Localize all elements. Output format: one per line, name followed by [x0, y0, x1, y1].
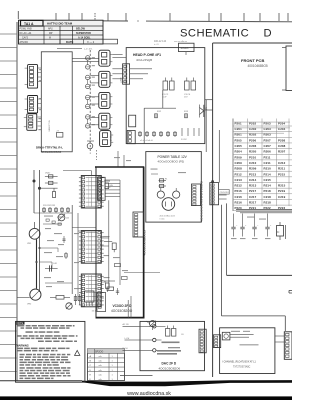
dac terminals [153, 325, 156, 328]
dashed bus line [89, 50, 91, 154]
vertical text in selector box [49, 120, 51, 132]
wire vertical x221 lower [221, 205, 223, 316]
svg-text:R207: R207 [278, 150, 286, 154]
svg-text:C205: C205 [235, 144, 243, 148]
front pcb border vertical [212, 43, 214, 377]
cap C50 [109, 280, 115, 282]
svg-text:R31 R32 R33: R31 R32 R33 [43, 205, 56, 207]
svg-text:M: M [49, 38, 51, 40]
svg-text:x4x: x4x [99, 379, 102, 381]
relay box in head pcb [129, 115, 136, 127]
wires modules to head pcb [112, 54, 122, 56]
svg-text:1N4O: 1N4O [45, 173, 51, 175]
wire phono H [40, 187, 58, 189]
svg-text:tc 41: tc 41 [154, 43, 160, 46]
svg-text:CAYS: CAYS [22, 37, 29, 40]
svg-text:P209: P209 [235, 155, 242, 159]
option table [88, 349, 125, 381]
dash stub above vc300 [96, 150, 98, 160]
pot VR5 above dac [150, 321, 156, 327]
stubs channel box to CN-R [275, 335, 284, 337]
wire rails mid [71, 205, 73, 294]
box 5000 top [179, 43, 195, 51]
junction node A [33, 180, 35, 182]
svg-text:400104685O5: 400104685O5 [248, 64, 268, 68]
svg-text:P205: P205 [235, 138, 242, 142]
power transistor Q10 [162, 198, 175, 211]
svg-text:4Ox 1O8xx 2xO: 4Ox 1O8xx 2xO [160, 216, 176, 218]
fuse parts in power pcb [159, 180, 167, 182]
tiny labels near ICs [104, 236, 110, 237]
smudge on parts table top rows [234, 122, 290, 123]
small caps lower-left [63, 236, 65, 243]
wires into vc300 left edge upper [72, 227, 96, 229]
svg-text:R217: R217 [249, 201, 257, 205]
svg-text:P207: P207 [264, 138, 271, 142]
option table columns [94, 349, 96, 381]
parts list table frame [232, 119, 234, 212]
svg-text:C214: C214 [249, 178, 257, 182]
svg-text:AC 1N: AC 1N [123, 323, 129, 326]
svg-text:x4x: x4x [99, 374, 102, 376]
svg-text:C212: C212 [278, 161, 286, 165]
svg-text:P210: P210 [249, 155, 256, 159]
junction dots lower-left [39, 247, 41, 249]
svg-text:NOTE: NOTE [17, 322, 24, 325]
connector CN-B right [210, 183, 219, 205]
svg-text:POWER TABLE 12V: POWER TABLE 12V [158, 155, 188, 159]
svg-text:I CHANNEL (FLOAT) BOX AT L1: I CHANNEL (FLOAT) BOX AT L1 [222, 360, 256, 363]
wire head pcb to front border [205, 109, 213, 111]
transistor pair Q3 [86, 95, 90, 99]
svg-text:D: D [264, 28, 272, 40]
svg-text:WARNING: WARNING [16, 344, 29, 348]
relay box RL2 [85, 291, 95, 302]
dac pcb box [140, 321, 205, 370]
svg-text:R206: R206 [264, 150, 272, 154]
svg-text:HATTV2 DIO TEAM: HATTV2 DIO TEAM [47, 22, 73, 26]
front pcb border top [213, 42, 292, 44]
title block date row extension [60, 39, 118, 44]
svg-text:POWL YASI: POWL YASI [20, 28, 33, 31]
svg-text:R216: R216 [235, 201, 243, 205]
vc300 block box [96, 167, 144, 318]
wire U1 top [90, 171, 92, 176]
svg-text:4OO15O82OO: 4OO15O82OO [111, 309, 133, 313]
parts right of U1 [104, 180, 110, 182]
svg-text:5O0O: 5O0O [181, 46, 190, 50]
op-amp IC U3 [81, 274, 101, 307]
junction dot power top [212, 181, 214, 183]
svg-text:DRKA-TTRYTNL R-L: DRKA-TTRYTNL R-L [36, 145, 63, 149]
svg-text:C208: C208 [278, 144, 286, 148]
component S1 in selector box [57, 133, 63, 138]
bus wires below parts table [236, 209, 292, 211]
parts cluster x74-82 [75, 294, 77, 305]
svg-text:D1 D2: D1 D2 [181, 139, 188, 141]
svg-text:CN 5O9O: CN 5O9O [220, 192, 230, 194]
rotated label on vc300 right edge [143, 229, 147, 255]
svg-text:P218: P218 [264, 189, 271, 193]
svg-text:R209: R209 [249, 167, 257, 171]
transistor Q5 [58, 214, 65, 221]
tone parts cluster top [43, 207, 45, 213]
wire vertical x206 [205, 100, 207, 152]
warning triangle [75, 350, 80, 355]
svg-text:C219: C219 [278, 195, 286, 199]
capacitor C234 [267, 214, 269, 228]
svg-text:x4x: x4x [99, 356, 102, 358]
rotated text strip beside power pcb [200, 180, 204, 222]
resistor R50 [107, 287, 114, 290]
svg-text:4OOxOOO8OO (P5): 4OOxOOO8OO (P5) [158, 160, 185, 164]
jack pin labels [39, 69, 42, 70]
wire to margin left of VR2 [17, 296, 30, 298]
extra parts cluster lower-left 1 [46, 219, 49, 221]
title block row lines [19, 25, 104, 27]
note box [16, 321, 85, 382]
tiny labels under bus wires [247, 217, 255, 218]
head phone pcb box [126, 48, 205, 144]
parts right of U2 [104, 240, 112, 242]
capacitor cluster A in head pcb [163, 81, 168, 90]
inner verticals vc300 [108, 200, 110, 290]
wires from cn5060 into box [130, 68, 152, 70]
svg-text:DATE: DATE [66, 40, 74, 44]
svg-text:R215: R215 [278, 184, 286, 188]
rca jack J2 [28, 96, 38, 114]
svg-text:R211: R211 [278, 167, 285, 171]
capacitor C233 [254, 214, 256, 228]
svg-text:R218: R218 [264, 201, 272, 205]
phono jack module M1 [99, 50, 110, 66]
phono jack module M2 [99, 71, 110, 87]
svg-text:P216: P216 [235, 189, 242, 193]
transistor pair Q2 [86, 75, 90, 79]
connector bottom-left of head pcb [127, 131, 135, 144]
svg-text:P211: P211 [264, 155, 271, 159]
title block column lines [43, 26, 45, 44]
svg-text:4OOL2O2O5O0: 4OOL2O2O5O0 [41, 150, 62, 154]
svg-text:R210: R210 [264, 167, 272, 171]
extra marks power pcb [151, 169, 158, 170]
transistor pair Q4 [86, 115, 90, 119]
channel box [220, 328, 275, 374]
schematic bottom border line [0, 380, 82, 382]
parts row right in head pcb [181, 128, 183, 136]
svg-text:R208: R208 [235, 167, 243, 171]
svg-text:P214: P214 [264, 172, 271, 176]
phono jack module M3 [99, 92, 110, 108]
wire down from head pcb mid [162, 90, 164, 108]
svg-text:R-CH: R-CH [123, 348, 129, 350]
wire horizontal lower-right [222, 315, 286, 317]
svg-text:SCHEMATIC: SCHEMATIC [180, 28, 249, 40]
svg-text:P213: P213 [249, 172, 256, 176]
regulator block right [277, 226, 284, 237]
svg-text:P208: P208 [278, 138, 285, 142]
warning text lines [18, 348, 24, 350]
svg-text:L-CH: L-CH [125, 338, 130, 340]
svg-text:C217: C217 [249, 195, 257, 199]
wire cluster [34, 212, 72, 214]
dac terminal inner wires [156, 325, 166, 327]
svg-text:X — 2: X — 2 [87, 40, 95, 44]
svg-text:VC3OO 2F D: VC3OO 2F D [113, 304, 133, 308]
svg-text:xxx xxx xAx xx: xxx xxx xAx xx [174, 40, 187, 43]
svg-text:P215: P215 [278, 172, 285, 176]
transistor Q7 near head pcb [203, 105, 205, 117]
wire horizontal mid-right [227, 274, 292, 276]
connector CN-V in vc300 [98, 177, 106, 200]
top ruler line [19, 19, 129, 22]
dac input wires [123, 325, 141, 327]
svg-text:C218: C218 [264, 195, 272, 199]
svg-text:x4x: x4x [99, 365, 102, 367]
junction node B [38, 187, 40, 189]
phono jack module M4 [99, 113, 110, 129]
svg-text:x4x: x4x [99, 361, 102, 363]
component cluster vc300 bottom-left [97, 293, 106, 312]
svg-text:P212: P212 [235, 172, 242, 176]
capacitor C232 [242, 214, 244, 228]
svg-text:SUPERSTOB: SUPERSTOB [76, 32, 91, 35]
svg-text:1O/A: 1O/A [108, 184, 113, 187]
svg-text:R214: R214 [264, 184, 272, 188]
connector CN-A on power pcb edge [192, 184, 201, 206]
svg-text:TXT2TOS73A5C: TXT2TOS73A5C [233, 365, 251, 368]
component cluster under pairs [87, 143, 93, 149]
transistor pair Q1 [86, 56, 90, 60]
power pcb box [146, 152, 202, 223]
op-amp IC U1 [81, 176, 101, 209]
svg-text:HEAD P-OHE #F1: HEAD P-OHE #F1 [133, 53, 161, 57]
svg-text:4OO1O5O82O6: 4OO1O5O82O6 [159, 366, 181, 370]
input selector box [41, 52, 72, 152]
svg-text:C215: C215 [264, 178, 272, 182]
diode D5 [45, 176, 58, 178]
phono jack module M5 [100, 131, 111, 147]
channel box center text [240, 344, 259, 346]
balance pot VR2 [30, 289, 41, 300]
op-amp IC U2 [81, 231, 101, 264]
svg-text:c: c [270, 225, 271, 227]
pot P1 in power pcb [157, 191, 164, 198]
svg-text:15 1F: 15 1F [92, 311, 98, 313]
svg-text:R212: R212 [235, 184, 243, 188]
svg-text:c: c [245, 225, 246, 227]
connector CN-R right edge [284, 332, 292, 360]
rca jack J1 [28, 65, 38, 89]
svg-text:P219: P219 [278, 189, 285, 193]
module wires left [72, 58, 99, 60]
svg-text:x1 x2 x3 x4 x5: x1 x2 x3 x4 x5 [140, 140, 154, 142]
phono block rails [33, 170, 35, 213]
svg-text:BELOW: BELOW [76, 28, 86, 31]
parts list column lines [247, 119, 249, 207]
svg-text:C206: C206 [249, 144, 257, 148]
wire vertical mid-right [226, 203, 228, 275]
resistor R44 [56, 296, 64, 300]
svg-text:ATN RD: ATN RD [20, 41, 29, 44]
svg-text:R213: R213 [249, 184, 257, 188]
verticals above vc300 top [117, 151, 119, 167]
wires from CN-V [105, 179, 120, 181]
svg-text:400-12 144: 400-12 144 [154, 40, 167, 43]
svg-text:4OO1O5O82OO1x: 4OO1O5O82OO1x [143, 229, 147, 255]
title block model cell [21, 20, 44, 26]
svg-text:P206: P206 [249, 138, 256, 142]
svg-text:FRONT PCB: FRONT PCB [241, 58, 264, 63]
extra wires lower-left [43, 223, 62, 225]
svg-text:APL!: APL! [48, 28, 53, 31]
wire out of vc300 right [124, 272, 160, 274]
corner mark top-left [17, 11, 19, 19]
svg-text:R205: R205 [249, 150, 257, 154]
connector CN-W on vc300 right edge [133, 212, 144, 237]
led indicator in channel box [222, 332, 230, 340]
pot P2 in power pcb [173, 191, 180, 198]
svg-text:x-1 t.07L: x-1 t.07L [84, 47, 93, 50]
wire vertical x219 [218, 130, 220, 183]
svg-text:P217: P217 [249, 189, 256, 193]
svg-text:C213: C213 [235, 178, 243, 182]
dac text rows [162, 342, 180, 344]
note line under table [57, 47, 82, 49]
svg-text:SP2OO: SP2OO [95, 350, 103, 353]
small parts inside vc300 [115, 264, 121, 267]
svg-text:C210: C210 [249, 161, 257, 165]
volume pot VR1 [29, 228, 40, 239]
svg-text:C211: C211 [264, 161, 271, 165]
svg-text:x4x: x4x [99, 370, 102, 372]
capacitor cluster B right of head pcb [185, 81, 190, 90]
svg-text:R204: R204 [235, 150, 243, 154]
svg-text:www.audiocdna.sk: www.audiocdna.sk [127, 391, 171, 397]
svg-text:SELECT IN: SELECT IN [49, 120, 51, 132]
note label [16, 322, 25, 325]
svg-text:DAC 2F D: DAC 2F D [162, 361, 177, 365]
rca jack J3 [27, 114, 37, 131]
svg-text:IC: IC [277, 231, 280, 234]
jack wire stubs to selector box [38, 67, 42, 69]
svg-text:MP: MP [49, 33, 53, 35]
top ruler ticks [56, 13, 288, 21]
svg-text:4OxL2P2gB: 4OxL2P2gB [136, 58, 152, 62]
svg-text:C207: C207 [264, 144, 272, 148]
parts right of U3 [104, 280, 110, 282]
diode D6 [45, 182, 58, 184]
wire below dac [120, 375, 153, 377]
resistor R21 [53, 192, 56, 198]
svg-text:C3 C4: C3 C4 [184, 94, 191, 96]
caps in dac [166, 329, 170, 337]
component row head pcb bottom [139, 131, 141, 137]
connector CN-E outside dac [214, 335, 221, 348]
svg-text:CN06: CN06 [121, 76, 123, 82]
transistor Q6 [66, 303, 72, 309]
left margin tick marks [0, 34, 17, 372]
svg-text:C216: C216 [235, 195, 243, 199]
labels above channel wires [231, 331, 240, 332]
svg-text:C4O: C4O [53, 263, 58, 265]
left margin border line [16, 22, 18, 381]
wire stubs right of CN-B [219, 194, 227, 196]
capacitor C40 [45, 268, 58, 270]
wire stubs into vc300 left edge [101, 237, 109, 239]
svg-text:DC-AC +44: DC-AC +44 [20, 32, 33, 35]
label CN5090 [219, 190, 230, 195]
bottom scan bar lower [0, 396, 292, 400]
wires in channel box [230, 333, 254, 335]
svg-text:TA1 A: TA1 A [24, 22, 34, 26]
connector CN-D on dac right edge [199, 329, 206, 353]
main bus wire [36, 239, 38, 288]
svg-text:tr 40x: tr 40x [160, 217, 165, 220]
stub mark right edge [289, 289, 292, 291]
connector CN5060 on head pcb [123, 64, 130, 84]
title block table [19, 20, 104, 44]
svg-text:C209: C209 [235, 161, 243, 165]
capacitor C231 [233, 214, 235, 228]
note text lines [18, 325, 25, 327]
option table rows [88, 352, 125, 354]
connector CN-F right edge box [286, 46, 294, 91]
bottom scan bar upper [82, 380, 292, 386]
